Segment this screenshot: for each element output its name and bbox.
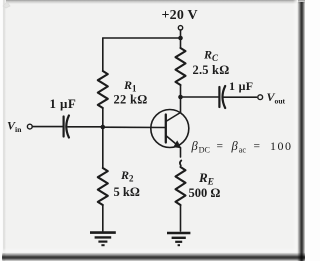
transistor Q1 collector diagonal: [166, 113, 181, 122]
resistor RC: [176, 48, 186, 85]
svg-text:β: β: [191, 139, 199, 153]
svg-text:5 kΩ: 5 kΩ: [114, 185, 140, 199]
wire collector node to capacitor C2: [181, 96, 219, 98]
svg-text:1 μF: 1 μF: [50, 96, 77, 111]
ground below RE: [167, 233, 190, 245]
junction base node dot: [101, 125, 106, 130]
transistor Q1 emitter arrowhead: [174, 141, 181, 148]
svg-text:R2: R2: [120, 168, 134, 184]
capacitor C1 curved plate: [66, 116, 69, 138]
wire RC top lead: [180, 38, 182, 48]
svg-text:RC: RC: [203, 48, 219, 64]
junction collector node dot: [178, 95, 183, 100]
svg-text:Vin: Vin: [7, 119, 22, 134]
svg-text:Vout: Vout: [267, 90, 286, 106]
node Vout output terminal: [258, 95, 263, 100]
svg-text:22 kΩ: 22 kΩ: [114, 93, 148, 107]
wire top rail horizontal: [103, 37, 181, 39]
transistor Q1 body circle: [151, 110, 189, 148]
wire base node to transistor base: [103, 126, 166, 128]
wire supply terminal down to top rail junction: [180, 30, 182, 38]
wire emitter lead down: [180, 148, 182, 157]
svg-text:500 Ω: 500 Ω: [189, 186, 221, 200]
wire input to capacitor C1: [33, 126, 63, 128]
node Vin input terminal: [27, 124, 32, 129]
wire capacitor C2 to output terminal: [224, 96, 257, 98]
svg-text:ac: ac: [239, 146, 247, 155]
transistor Q1 emitter diagonal: [166, 136, 181, 148]
wire RC bottom lead to collector node: [180, 85, 182, 97]
wire emitter lead artifact mark: [180, 161, 181, 166]
svg-text:RE: RE: [198, 170, 214, 188]
svg-text:1 μF: 1 μF: [229, 79, 253, 93]
node +20V supply terminal: [178, 26, 182, 30]
svg-text:R1: R1: [123, 78, 137, 94]
wire R1 top lead: [102, 38, 104, 71]
resistor R1: [98, 71, 108, 108]
scan artifact top-left corner: [3, 2, 10, 8]
wire collector lead vertical: [180, 97, 182, 113]
wire R2 bottom lead: [102, 205, 104, 231]
junction supply node dot: [178, 36, 183, 41]
wire capacitor C1 to base node: [68, 126, 103, 128]
svg-text:=: =: [254, 141, 261, 153]
svg-text:100: 100: [270, 139, 293, 153]
wire R1 bottom lead: [102, 108, 104, 127]
ground below R2: [90, 233, 116, 246]
capacitor C2 curved plate: [223, 86, 226, 108]
capacitor C2 straight plate: [218, 87, 220, 107]
capacitor C1 straight plate: [62, 117, 64, 137]
svg-text:DC: DC: [199, 146, 211, 155]
svg-text:=: =: [217, 141, 224, 153]
label beta equation: [191, 139, 293, 155]
svg-text:2.5 kΩ: 2.5 kΩ: [193, 63, 230, 77]
resistor R2: [98, 168, 108, 205]
transistor Q1 base bar: [165, 115, 167, 143]
wire RE bottom lead: [180, 205, 182, 231]
wire R2 top lead: [102, 127, 104, 168]
svg-text:β: β: [231, 139, 239, 153]
resistor RE: [176, 167, 186, 205]
svg-text:+20 V: +20 V: [162, 8, 198, 23]
